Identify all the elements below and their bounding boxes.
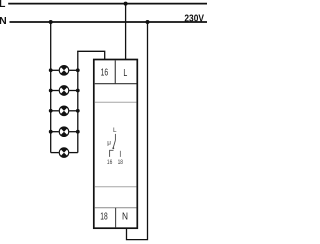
- device internal gray line lower: [95, 186, 137, 188]
- svg-text:μ: μ: [107, 140, 111, 147]
- wire rail to terminal 16: [78, 51, 105, 60]
- internal switch blade tip: [112, 147, 114, 149]
- internal switch blade: [113, 140, 115, 148]
- wire L line: [8, 3, 207, 5]
- svg-text:16: 16: [101, 68, 109, 79]
- internal contact 18: [119, 151, 121, 157]
- pushbutton S2: [49, 86, 80, 96]
- svg-text:N: N: [0, 15, 7, 27]
- internal contact 16: [110, 150, 114, 157]
- pushbutton S5: [51, 148, 78, 158]
- node junction on N line at buttons: [49, 20, 53, 24]
- svg-text:230V: 230V: [184, 12, 204, 24]
- svg-text:16: 16: [107, 159, 113, 166]
- terminal row top separator: [95, 83, 137, 85]
- internal wire stub from L: [114, 134, 116, 140]
- terminal divider top: [114, 60, 116, 83]
- node junction on N line at device: [146, 20, 150, 24]
- node junction on L line: [124, 2, 128, 6]
- terminal row bottom separator: [95, 207, 137, 209]
- device U1 outline: [94, 60, 138, 229]
- wire left button rail: [50, 22, 52, 153]
- pushbutton S4: [49, 127, 80, 137]
- pushbutton S3: [49, 106, 80, 116]
- svg-text:L: L: [0, 0, 6, 10]
- wire right button rail: [77, 51, 79, 152]
- pushbutton S1: [49, 66, 80, 76]
- svg-text:L: L: [113, 127, 117, 134]
- wire N line to terminal N: [127, 22, 148, 240]
- svg-text:18: 18: [118, 159, 124, 166]
- svg-text:18: 18: [100, 212, 108, 223]
- svg-text:L: L: [123, 68, 127, 79]
- svg-text:N: N: [122, 212, 128, 223]
- terminal divider bottom: [115, 208, 117, 228]
- wire N line: [10, 21, 208, 23]
- device internal gray line upper: [95, 101, 137, 103]
- wire L line to terminal L: [125, 4, 127, 60]
